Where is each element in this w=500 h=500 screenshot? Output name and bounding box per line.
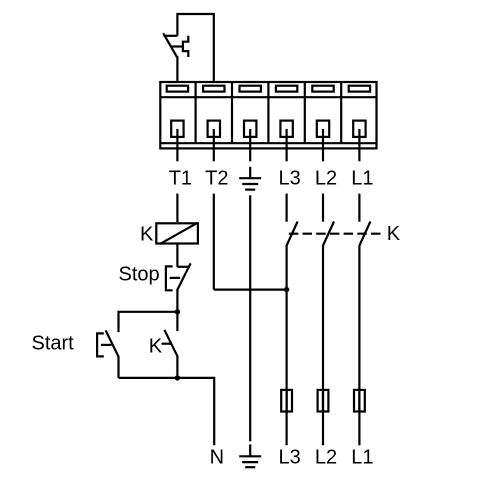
svg-text:Start: Start — [32, 332, 75, 354]
svg-text:K: K — [149, 335, 163, 357]
start button contact (NO) — [106, 330, 119, 356]
svg-text:L3: L3 — [278, 446, 300, 468]
node junction stop/start — [175, 309, 180, 314]
wire T1 label to coil — [176, 194, 178, 223]
svg-text:L2: L2 — [315, 446, 337, 468]
ground symbol (top) — [239, 167, 261, 190]
fuse F2 — [318, 390, 329, 412]
stop button actuator bracket — [166, 266, 180, 290]
wire stop to junction — [176, 289, 178, 312]
svg-text:L3: L3 — [278, 167, 300, 189]
terminal block outline — [160, 82, 376, 148]
wire T2 column down — [213, 194, 215, 290]
start button actuator bracket — [97, 333, 111, 356]
svg-text:K: K — [387, 223, 401, 245]
terminal block label-strip line — [160, 96, 376, 98]
auxiliary contact K (NO) — [164, 330, 177, 356]
fuse link F2 — [322, 390, 324, 412]
node junction T2/L3 — [284, 287, 289, 292]
stop button contact (NC) — [177, 263, 190, 289]
terminal block bottom-strip line — [160, 142, 376, 144]
wire earth column — [249, 195, 251, 441]
wire start branch top — [119, 312, 178, 332]
wire L2 upper lead — [322, 194, 324, 222]
wire L1 upper lead — [358, 194, 360, 222]
svg-text:L1: L1 — [351, 167, 373, 189]
svg-text:K: K — [140, 224, 154, 246]
contactor linkage (dashed) — [289, 233, 381, 235]
wire L1 column down — [358, 245, 360, 445]
terminal block cell dividers — [196, 82, 342, 143]
wire K-aux upper lead — [176, 312, 178, 331]
thermal overload contact (NC) — [163, 33, 177, 57]
terminal screw squares — [171, 121, 365, 137]
coil K — [156, 223, 198, 244]
svg-text:Stop: Stop — [119, 263, 160, 285]
wire L2 column down — [322, 245, 324, 445]
wire top loop T1 to T2 — [177, 14, 213, 81]
wire contact to terminal T1 — [176, 56, 178, 81]
svg-text:N: N — [210, 446, 224, 468]
contactor main contact K (L3) — [287, 222, 298, 246]
fuse link F1 — [358, 390, 360, 412]
thermal release detent — [183, 36, 188, 57]
fuse link F3 — [286, 390, 288, 412]
contactor main contact K (L1) — [359, 222, 370, 246]
wire start branch bottom lead — [117, 356, 119, 378]
wire K-aux lower lead — [176, 356, 178, 378]
svg-text:L2: L2 — [315, 167, 337, 189]
ground symbol (bottom) — [239, 444, 261, 467]
fuse F1 — [354, 390, 365, 412]
wire T2 to L3 column — [214, 289, 287, 291]
svg-text:L1: L1 — [351, 446, 373, 468]
node junction start/K-aux bottom — [175, 375, 180, 380]
terminal lead stubs — [177, 129, 359, 161]
actuator link — [172, 45, 183, 47]
svg-text:T2: T2 — [205, 167, 228, 189]
fuse F3 — [281, 390, 292, 412]
wire coil to stop — [176, 244, 178, 267]
wire L3 upper lead — [286, 194, 288, 222]
terminal label windows — [167, 86, 370, 92]
svg-text:T1: T1 — [169, 167, 192, 189]
wire bottom to N — [119, 378, 215, 445]
actuator dash K-aux — [162, 343, 172, 345]
wire L3 column down — [286, 245, 288, 445]
contactor main contact K (L2) — [323, 222, 334, 246]
